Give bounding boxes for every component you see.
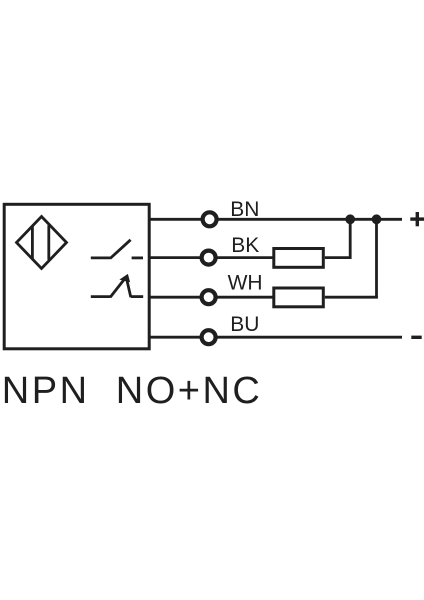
wire WH middle segment bbox=[216, 296, 273, 299]
switch NC bbox=[91, 275, 143, 298]
minus sign bbox=[411, 336, 421, 339]
wire WH vertical riser bbox=[375, 219, 378, 298]
svg-text:BK: BK bbox=[231, 234, 259, 257]
resistor R1 bbox=[274, 249, 324, 268]
junction dot A bbox=[345, 214, 355, 224]
svg-text:NPN: NPN bbox=[2, 370, 90, 412]
wire BK middle segment bbox=[216, 256, 273, 259]
terminal WH bbox=[202, 290, 216, 304]
sensor box bbox=[4, 204, 149, 348]
resistor R2 bbox=[274, 288, 324, 307]
sensor symbol (diamond with chords) bbox=[17, 217, 67, 269]
plus sign bbox=[410, 212, 424, 226]
terminal BN bbox=[203, 212, 217, 226]
wire BU left segment bbox=[149, 336, 202, 339]
wire BN left segment bbox=[149, 218, 202, 221]
terminal BK bbox=[202, 251, 216, 265]
terminal BU bbox=[202, 330, 216, 344]
wire WH left segment bbox=[149, 296, 202, 299]
wire BK left segment bbox=[149, 256, 202, 259]
wire BU right segment bbox=[216, 336, 402, 339]
svg-text:BN: BN bbox=[230, 198, 259, 221]
wire WH right segment bbox=[325, 296, 378, 299]
wire BK right segment bbox=[325, 256, 352, 259]
svg-text:BU: BU bbox=[230, 313, 259, 336]
wire BK vertical riser bbox=[349, 219, 352, 259]
junction dot B bbox=[372, 214, 382, 224]
wire BN right segment bbox=[217, 218, 402, 221]
switch NO bbox=[91, 240, 143, 259]
svg-text:NO+NC: NO+NC bbox=[116, 370, 263, 412]
svg-text:WH: WH bbox=[228, 271, 263, 294]
